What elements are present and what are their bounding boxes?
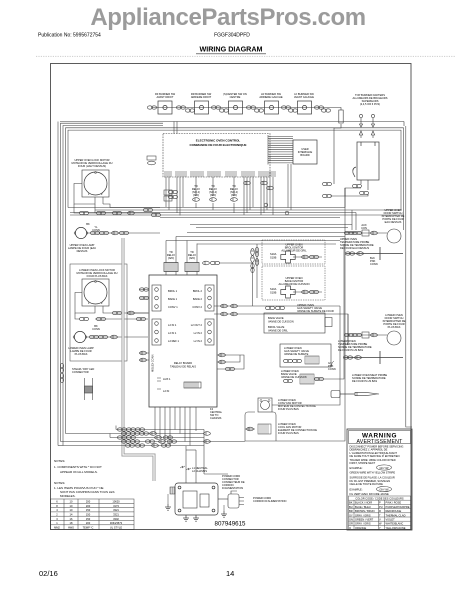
svg-text:BOARD: BOARD	[300, 153, 309, 157]
svg-text:BK: BK	[349, 501, 353, 505]
label center sw chassis	[210, 407, 223, 420]
publication number	[38, 33, 101, 39]
svg-text:VANNE DE CUISSON: VANNE DE CUISSON	[268, 320, 294, 324]
svg-text:EAU DESSUS: EAU DESSUS	[385, 220, 402, 224]
wires relays to bus	[166, 225, 356, 307]
svg-text:807949615: 807949615	[215, 521, 247, 528]
svg-text:Y: Y	[379, 526, 381, 530]
svg-text:FOUR PLUS BAS: FOUR PLUS BAS	[87, 274, 108, 278]
svg-text:FOUR PLUS BAS: FOUR PLUS BAS	[278, 431, 299, 435]
ribbon cable EOC to UI	[268, 135, 293, 173]
top burner igniter electrodes	[359, 110, 375, 138]
svg-text:DE FOUR PLUS BAS: DE FOUR PLUS BAS	[352, 379, 377, 383]
upper oven broil ignitor box	[262, 240, 325, 264]
svg-text:COLOR CODE / CODE DES COULEURS: COLOR CODE / CODE DES COULEURS	[355, 497, 404, 501]
lightning labels L1 neutral	[180, 466, 208, 473]
svg-text:DESSUS: DESSUS	[77, 249, 88, 253]
svg-text:AppliancePartsPros.com: AppliancePartsPros.com	[90, 4, 365, 31]
svg-text:CONN: CONN	[370, 262, 378, 266]
svg-text:L2 CHASSIS: L2 CHASSIS	[192, 469, 207, 473]
svg-text:AUX 1: AUX 1	[163, 377, 171, 381]
lower oven lock motor M2	[77, 268, 118, 306]
svg-text:ARRIERE DROIT: ARRIERE DROIT	[191, 95, 212, 99]
svg-text:BROIL VALVE: BROIL VALVE	[268, 325, 285, 329]
wire gauge table	[51, 499, 135, 530]
wire top burner feed line	[60, 108, 404, 185]
svg-text:ALLUMEUR DE CUISSON: ALLUMEUR DE CUISSON	[279, 282, 310, 286]
upper oven temperature probe	[340, 237, 403, 266]
svg-text:O: O	[349, 526, 351, 530]
svg-text:APPEAR ON ALL MODELS.: APPEAR ON ALL MODELS.	[60, 470, 98, 474]
svg-text:MOLEX CONN: MOLEX CONN	[151, 354, 155, 372]
svg-text:L2 IN 2: L2 IN 2	[194, 339, 203, 343]
upper oven lock motor M1	[72, 158, 113, 197]
left EOC drop connector block	[164, 190, 172, 201]
svg-text:R: R	[379, 509, 381, 513]
mini relay TD no.3	[230, 184, 239, 201]
lower oven lamp L2	[68, 324, 148, 356]
svg-text:Publication No: 5995672754: Publication No: 5995672754	[38, 33, 101, 39]
connectors left of relay board	[139, 288, 148, 362]
connector below igniter module	[322, 182, 368, 197]
upper oven lamp L1	[68, 222, 160, 253]
svg-text:10620: 10620	[112, 500, 120, 504]
svg-text:CENTRE: CENTRE	[230, 95, 241, 99]
svg-text:GN-YW: GN-YW	[380, 487, 389, 491]
connector pairs between burner switches	[147, 106, 330, 112]
relay K2 hatched	[185, 250, 199, 272]
svg-text:200: 200	[86, 521, 91, 525]
svg-text:1. COMPONENTS WITH * DO NOT: 1. COMPONENTS WITH * DO NOT	[54, 465, 102, 469]
svg-text:BROL 1: BROL 1	[168, 289, 178, 293]
spark igniter switch module	[350, 142, 379, 180]
bundle connectors row4	[121, 440, 176, 444]
svg-text:WHITE/BLANC: WHITE/BLANC	[386, 522, 404, 526]
svg-text:OR: OR	[349, 522, 353, 526]
svg-text:VIOLET: VIOLET	[386, 518, 396, 522]
warning french text	[350, 476, 395, 486]
spark module bottom	[170, 483, 218, 515]
notes french	[54, 481, 114, 498]
svg-text:150: 150	[86, 508, 91, 512]
wires left of relay board	[131, 290, 149, 361]
upper oven bake ignitor box	[262, 266, 325, 300]
ground power cord	[221, 505, 227, 517]
lower oven door switch	[344, 313, 405, 345]
svg-text:FIL VERT AVEC RAYURE JAUNE: FIL VERT AVEC RAYURE JAUNE	[350, 492, 389, 496]
svg-text:CONNECTOR: CONNECTOR	[72, 370, 89, 374]
relay board	[149, 275, 217, 407]
svg-text:PU: PU	[379, 505, 383, 509]
svg-text:VANNE DE SURETE DE FOUR: VANNE DE SURETE DE FOUR	[297, 309, 334, 313]
svg-text:DE FOUR PLUS BAS: DE FOUR PLUS BAS	[338, 348, 363, 352]
bundle connectors row5	[125, 432, 210, 448]
connectors right of relay board	[219, 304, 238, 370]
svg-text:ELECTRONIC OVEN CONTROL: ELECTRONIC OVEN CONTROL	[196, 139, 241, 143]
svg-text:BAKE VALVE: BAKE VALVE	[268, 316, 284, 320]
svg-text:FIRST, STRIPE NEXT: FIRST, STRIPE NEXT	[350, 461, 376, 465]
svg-text:PLUS BAS: PLUS BAS	[388, 325, 401, 329]
relay board right terminals group 2	[191, 319, 214, 345]
horizontal bus wires center	[68, 188, 404, 230]
svg-text:PURPLE/POURPRE: PURPLE/POURPRE	[386, 505, 410, 509]
fuse F1 top burner	[339, 110, 343, 123]
title WIRING DIAGRAM	[36, 45, 456, 57]
svg-text:GREEN WIRE WITH YELLOW STRIPE: GREEN WIRE WITH YELLOW STRIPE	[350, 470, 396, 474]
svg-text:EXAMPLE:: EXAMPLE:	[350, 466, 363, 470]
svg-text:L2 IN 1: L2 IN 1	[168, 331, 177, 335]
column connectors to igniters	[251, 247, 259, 272]
ground spark module left	[165, 494, 171, 510]
burner switch SW1 RF	[155, 92, 176, 114]
bottom wire bundle horizontals	[58, 426, 245, 446]
svg-text:COMMANDE DE FOUR ELECTRONIQUE: COMMANDE DE FOUR ELECTRONIQUE	[190, 143, 247, 147]
burner switch SW5 LF	[294, 92, 314, 114]
relay board left terminals group 1	[152, 285, 178, 311]
lower oven meat probe	[331, 373, 387, 398]
user interface board U2	[293, 140, 317, 164]
svg-text:CORDON D'ALIMENTATION: CORDON D'ALIMENTATION	[253, 499, 287, 503]
svg-text:TABLEAU DE RELAIS: TABLEAU DE RELAIS	[170, 365, 196, 369]
svg-text:YELLOW/JAUNE: YELLOW/JAUNE	[386, 526, 406, 530]
svg-text:D'ALIMENTATION: D'ALIMENTATION	[222, 486, 243, 490]
svg-text:3173: 3173	[113, 504, 119, 508]
svg-text:150: 150	[86, 513, 91, 517]
part number 807949615	[215, 521, 247, 528]
svg-text:VANNE DE CUISSON: VANNE DE CUISSON	[281, 375, 307, 379]
relay board right terminals group 1	[192, 285, 214, 311]
svg-text:3302: 3302	[113, 517, 119, 521]
svg-text:DE FAIRE TOUT SERVICE D' E: DE FAIRE TOUT SERVICE D' ENTRETIEN	[350, 454, 400, 458]
svg-text:(N/O): (N/O)	[189, 256, 195, 260]
burner switch SW2 RR	[191, 92, 212, 114]
upper oven door switch	[344, 208, 404, 243]
svg-text:RED/ROUGE: RED/ROUGE	[386, 509, 402, 513]
isolation transformer T1	[78, 378, 98, 413]
svg-text:NOTES:: NOTES:	[54, 481, 65, 485]
svg-text:BROL 2: BROL 2	[193, 289, 203, 293]
svg-text:AVERTISSEMENT: AVERTISSEMENT	[357, 439, 404, 445]
relay board bottom hatch connector	[184, 378, 201, 389]
svg-text:CONN: CONN	[92, 327, 100, 331]
svg-text:ALLUMEUR DE GRIL: ALLUMEUR DE GRIL	[281, 249, 307, 253]
footer page 14	[226, 569, 234, 578]
relay K1 hatched	[164, 250, 178, 272]
lower oven temperature probe	[328, 339, 403, 371]
footer date 02/16	[39, 569, 58, 578]
svg-text:GRAY / GRIS: GRAY / GRIS	[355, 522, 371, 526]
svg-text:L2 IN 1: L2 IN 1	[168, 323, 177, 327]
wire UI board to bus	[174, 122, 291, 211]
svg-text:L2 IN: L2 IN	[163, 389, 169, 393]
svg-text:S10B: S10B	[270, 291, 277, 295]
mini relay TD no.1	[192, 184, 201, 201]
warning body text	[350, 445, 404, 466]
bundle connectors row3	[117, 436, 172, 440]
svg-text:CHASSIS: CHASSIS	[210, 416, 222, 420]
lower oven light element	[247, 422, 318, 435]
svg-text:02/16: 02/16	[39, 569, 58, 578]
svg-text:3321: 3321	[113, 508, 119, 512]
wire loop nest top left	[58, 122, 412, 446]
svg-text:PINK / ROSE: PINK / ROSE	[386, 501, 402, 505]
svg-text:3321: 3321	[113, 513, 119, 517]
wire gauge table text	[54, 500, 123, 530]
model number FGGF304DPFD	[214, 33, 250, 39]
svg-text:MM2: MM2	[54, 525, 60, 529]
svg-text:BLUE / BLEU: BLUE / BLEU	[355, 505, 371, 509]
svg-text:L2 REF 1: L2 REF 1	[168, 339, 180, 343]
svg-text:TEMP °C: TEMP °C	[83, 525, 94, 529]
wires relay board right lower	[217, 355, 244, 369]
lower oven gas safety valve	[280, 344, 331, 367]
warning color legend table	[349, 496, 411, 530]
header logo AppliancePartsPros.com	[90, 4, 365, 31]
svg-text:AVANT GAUCHE: AVANT GAUCHE	[294, 95, 314, 99]
warning legend text	[349, 497, 410, 530]
wire igniter module to bus	[330, 180, 368, 196]
svg-text:BAKE 1: BAKE 1	[168, 297, 178, 301]
electronic oven control board	[163, 134, 270, 178]
power cord label	[253, 496, 287, 503]
bundle connectors row1	[117, 428, 144, 431]
svg-text:PLUS BAS: PLUS BAS	[75, 352, 88, 356]
svg-text:BLACK / NOIR: BLACK / NOIR	[355, 501, 372, 505]
warning title	[357, 433, 404, 446]
burner switch SW4 LR	[259, 92, 283, 114]
svg-text:CONV 2: CONV 2	[192, 305, 202, 309]
svg-text:CONV 1: CONV 1	[168, 305, 178, 309]
svg-text:GY: GY	[349, 513, 353, 517]
wires right of relay board BAKE2 CONV2	[214, 306, 348, 345]
bundle connectors row2	[121, 432, 156, 436]
wires upper lock motor	[74, 184, 160, 214]
svg-text:VANNE DE GRIL: VANNE DE GRIL	[268, 329, 288, 333]
svg-text:WIRING DIAGRAM: WIRING DIAGRAM	[199, 45, 262, 54]
svg-text:VANNE DE SURETE: VANNE DE SURETE	[284, 352, 309, 356]
relay board drop wires	[155, 407, 228, 483]
svg-text:S10B: S10B	[270, 256, 277, 260]
warning example 2	[350, 487, 392, 496]
svg-text:BROWN / BRUN: BROWN / BRUN	[355, 509, 375, 513]
connectors below upper lock motor	[79, 208, 160, 216]
ground spark module bottom	[183, 515, 199, 521]
svg-text:S10A: S10A	[270, 252, 277, 256]
wires EOC pins down to bus	[166, 177, 273, 216]
svg-text:L2 OUT 2: L2 OUT 2	[191, 323, 203, 327]
svg-text:BR: BR	[349, 509, 353, 513]
mini relay TD no.2	[209, 184, 218, 201]
svg-text:P: P	[379, 501, 381, 505]
svg-text:EXAMPLE:: EXAMPLE:	[350, 487, 363, 491]
svg-text:NOTES:: NOTES:	[54, 459, 65, 463]
connectors below lower lock motor	[79, 311, 145, 320]
svg-text:3064/3573: 3064/3573	[110, 521, 123, 525]
svg-text:L2 IN 2: L2 IN 2	[194, 331, 203, 335]
svg-text:GRAY / GRIS: GRAY / GRIS	[355, 513, 371, 517]
steam dry LED connector	[60, 363, 94, 382]
svg-text:CONN: CONN	[328, 367, 336, 371]
lower oven bake valve	[281, 369, 340, 384]
relay F3 connector stack left of EOC	[147, 143, 157, 165]
svg-text:UL STYLE: UL STYLE	[110, 525, 122, 529]
burner switch SW3 center	[223, 92, 247, 114]
enclosure lower oven section	[70, 264, 127, 361]
svg-text:DE FOUR EAU DESSUS: DE FOUR EAU DESSUS	[340, 246, 369, 250]
power cord connector label	[222, 474, 245, 490]
svg-text:150: 150	[86, 517, 91, 521]
warning box	[347, 429, 412, 530]
svg-text:FOUR (HAUT DESSUS): FOUR (HAUT DESSUS)	[78, 164, 106, 168]
svg-text:AWG: AWG	[68, 525, 74, 529]
connectors on EOC drop wires	[168, 181, 273, 199]
svg-text:BK: BK	[86, 222, 90, 226]
svg-text:GREEN / VERT: GREEN / VERT	[355, 518, 374, 522]
wires lower lock motor	[75, 293, 148, 320]
svg-text:14: 14	[226, 569, 234, 578]
svg-text:ORANGE: ORANGE	[355, 526, 367, 530]
power cord plug	[218, 491, 244, 508]
svg-text:GN: GN	[349, 518, 353, 522]
svg-text:FOUR PLUS BAS: FOUR PLUS BAS	[278, 407, 299, 411]
svg-text:AVANT DROIT: AVANT DROIT	[156, 95, 173, 99]
svg-text:200: 200	[86, 504, 91, 508]
svg-text:FGGF304DPFD: FGGF304DPFD	[214, 33, 250, 39]
svg-text:MODELES.: MODELES.	[60, 494, 76, 498]
molex vertical label	[151, 354, 155, 372]
upper oven gas safety valve	[264, 303, 334, 333]
wire loop lower right components	[245, 188, 348, 441]
relay board left terminals group 2	[152, 319, 180, 345]
svg-text:200: 200	[86, 500, 91, 504]
svg-text:ARRIERE GAUCHE: ARRIERE GAUCHE	[259, 95, 283, 99]
schematic outer border	[51, 64, 412, 530]
svg-text:RELAY BOARD: RELAY BOARD	[174, 361, 192, 365]
svg-text:S10A: S10A	[270, 287, 277, 291]
svg-text:GN-YW: GN-YW	[380, 466, 389, 470]
warning example 1	[350, 465, 396, 475]
svg-text:CON: CON	[361, 226, 367, 230]
thick HV cable	[123, 238, 154, 481]
relay board aux terminals	[157, 377, 171, 393]
label top burner igniters	[352, 93, 387, 106]
svg-text:(N/O): (N/O)	[168, 256, 174, 260]
EOC bottom pin clusters	[165, 168, 275, 178]
notes english	[54, 459, 102, 474]
svg-text:BU: BU	[349, 505, 353, 509]
svg-text:THERMAL CLAD: THERMAL CLAD	[386, 513, 406, 517]
svg-text:BAKE 2: BAKE 2	[193, 297, 203, 301]
svg-text:CELLE DE TOUTE RAYURE: CELLE DE TOUTE RAYURE	[350, 482, 384, 486]
lower oven conv fan motor	[258, 398, 316, 412]
svg-text:(2,4,5 OR 6 PCS): (2,4,5 OR 6 PCS)	[360, 102, 380, 106]
svg-text:V: V	[379, 518, 381, 522]
connector right of relays	[203, 261, 220, 265]
